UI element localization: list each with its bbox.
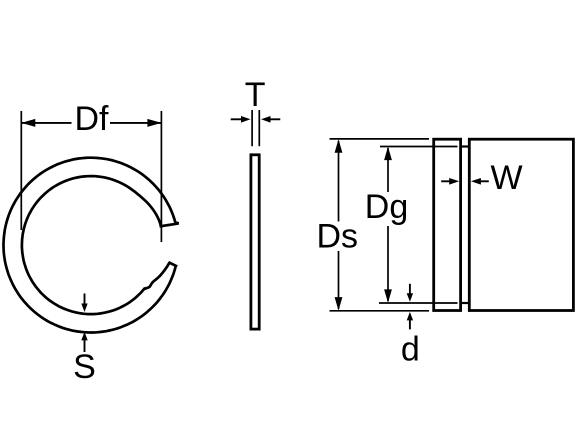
svg-text:d: d (401, 331, 420, 369)
Df arrowheads (21, 119, 35, 127)
Ds extension line bottom (330, 310, 430, 312)
Df right extension line (160, 111, 162, 242)
Ds dimension line with arrows (338, 141, 340, 309)
ring edge view (thin rectangle) (251, 155, 259, 329)
Dg extension line top (380, 146, 458, 148)
shaft land rectangle (left of groove) (434, 139, 461, 310)
T extension lines (251, 110, 253, 146)
T left arrow (231, 118, 243, 120)
shaft body rectangle (right of groove) (469, 139, 573, 310)
d down arrow (409, 284, 411, 296)
W left-pointing arrow (478, 180, 489, 182)
S lower arrow (points up to outer edge) (84, 338, 86, 352)
Df dimension line (21, 122, 71, 124)
white backing for Dg label (364, 192, 413, 226)
groove root line top (461, 145, 470, 147)
svg-text:Ds: Ds (317, 218, 359, 256)
svg-text:Dg: Dg (365, 188, 408, 226)
svg-text:W: W (491, 159, 523, 197)
Ds extension line top (330, 138, 430, 140)
Dg dimension line with arrows (387, 148, 389, 301)
svg-text:S: S (73, 348, 96, 386)
white backing for Ds label (316, 222, 362, 252)
T right arrow (268, 118, 280, 120)
svg-text:Df: Df (75, 100, 110, 138)
W right-pointing arrow (441, 180, 452, 182)
retaining ring (front view) (4, 158, 179, 333)
Df left extension line (20, 111, 22, 230)
groove root line bottom (461, 302, 470, 304)
Dg extension line bottom (379, 302, 458, 304)
S upper arrow (points down to inner edge) (84, 294, 86, 307)
svg-text:T: T (245, 76, 266, 114)
d up arrow (409, 318, 411, 329)
